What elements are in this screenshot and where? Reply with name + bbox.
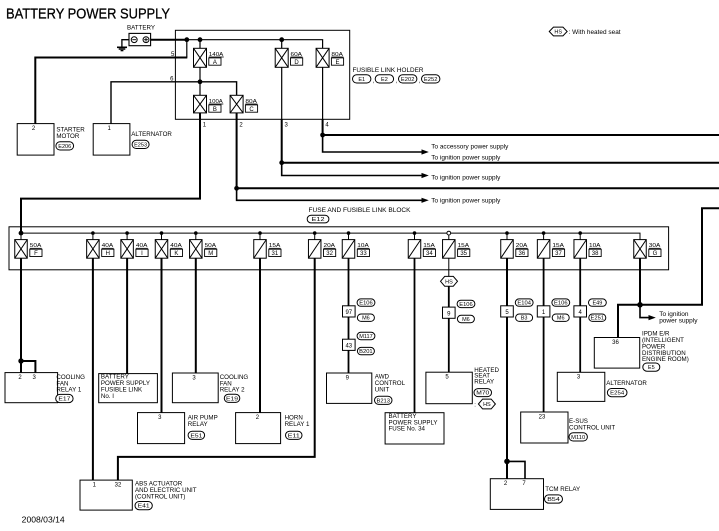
holder top bus bbox=[187, 40, 323, 49]
wire pin4 bbox=[322, 119, 324, 135]
E-SUS control unit M110 bbox=[521, 412, 616, 443]
connector E202 bbox=[399, 75, 417, 83]
svg-text:UNIT: UNIT bbox=[375, 386, 390, 393]
svg-text:E41: E41 bbox=[138, 504, 150, 510]
svg-text:B213: B213 bbox=[377, 398, 391, 404]
node fuse F feed bbox=[19, 231, 24, 236]
fusible link A bbox=[194, 48, 224, 67]
node wire6-AB bbox=[198, 79, 203, 84]
stub bus to link D bbox=[281, 40, 283, 49]
wire to IPDM pin 36 bbox=[618, 305, 640, 338]
wire fuse 33 to AWD unit bbox=[348, 258, 350, 373]
svg-text:E2: E2 bbox=[381, 77, 388, 83]
wire pin2 arrow stub bbox=[237, 188, 422, 200]
svg-text:FUSIBLE LINK HOLDER: FUSIBLE LINK HOLDER bbox=[353, 67, 424, 74]
HS legend text bbox=[569, 29, 621, 36]
svg-text:M6: M6 bbox=[362, 316, 370, 322]
svg-text:E1: E1 bbox=[358, 77, 365, 83]
node bus-A bbox=[198, 37, 203, 42]
label to ignition 2 bbox=[431, 175, 501, 182]
svg-text:32: 32 bbox=[115, 482, 122, 488]
connector 5 E104/B3 bbox=[501, 299, 533, 322]
svg-text:RELAY: RELAY bbox=[474, 378, 494, 385]
svg-text:23: 23 bbox=[539, 414, 546, 420]
svg-text:97: 97 bbox=[345, 310, 352, 316]
connector E1 bbox=[353, 75, 371, 83]
wire battery positive to holder bus bbox=[151, 39, 187, 41]
svg-text:E251: E251 bbox=[591, 316, 605, 322]
wire ignition arrow stub bbox=[640, 305, 649, 318]
svg-text:E106: E106 bbox=[359, 301, 373, 307]
AWD control unit B213 bbox=[327, 373, 406, 404]
svg-text:E106: E106 bbox=[554, 301, 568, 307]
horn relay 1 E11 bbox=[236, 413, 310, 444]
wire fuse F to cooling fan relay 1 bbox=[20, 258, 22, 372]
HS legend symbol bbox=[549, 27, 567, 36]
svg-text:D: D bbox=[294, 60, 299, 66]
wire fuse 38 to alternator bbox=[579, 258, 581, 372]
alternator E253 bbox=[93, 124, 172, 156]
wire battery negative to ground bbox=[122, 40, 129, 47]
wire fuse 36 to TCM relay bbox=[506, 258, 508, 479]
node TCM split bbox=[504, 459, 510, 465]
connector 9 E106/M6 bbox=[443, 300, 475, 323]
fusible link C bbox=[230, 95, 258, 113]
wire pin3 bbox=[281, 119, 283, 162]
svg-text:E12: E12 bbox=[312, 217, 325, 223]
svg-text:M: M bbox=[208, 251, 213, 257]
svg-text:To accessory power supply: To accessory power supply bbox=[431, 143, 509, 150]
node fuse 37 tap bbox=[542, 231, 546, 235]
svg-text:RELAY: RELAY bbox=[188, 421, 208, 428]
wire 5 label bbox=[171, 52, 175, 58]
fuse 37 bbox=[537, 233, 564, 258]
ground bbox=[117, 47, 127, 50]
svg-text:ENGINE ROOM): ENGINE ROOM) bbox=[642, 356, 689, 363]
svg-text:B54: B54 bbox=[547, 497, 560, 503]
svg-text:E253: E253 bbox=[134, 142, 147, 148]
svg-text:A: A bbox=[213, 60, 217, 66]
svg-text:E252: E252 bbox=[424, 77, 438, 83]
node fuse 35 tap (open) bbox=[447, 231, 451, 235]
svg-text:FUSE AND FUSIBLE LINK BLOCK: FUSE AND FUSIBLE LINK BLOCK bbox=[309, 207, 412, 214]
svg-text:To ignition power supply: To ignition power supply bbox=[431, 154, 501, 161]
wire pin2 bbox=[236, 113, 238, 188]
svg-text:(CONTROL UNIT): (CONTROL UNIT) bbox=[135, 493, 185, 500]
node fuse F tap bbox=[19, 231, 23, 235]
wire fuse 37 to E-SUS bbox=[543, 258, 545, 412]
wire feed from right edge bbox=[640, 208, 719, 305]
fuse block box bbox=[9, 227, 669, 270]
svg-text:B: B bbox=[213, 107, 217, 113]
svg-text:38: 38 bbox=[592, 251, 599, 257]
wire 5 starter to bus bbox=[35, 40, 187, 124]
battery label bbox=[127, 25, 156, 32]
fuse 35 bbox=[443, 233, 470, 258]
wire fuse 31 to horn relay 1 bbox=[259, 258, 261, 412]
svg-text:BATTERY: BATTERY bbox=[127, 25, 156, 32]
connector E2 bbox=[375, 75, 393, 83]
svg-text:36: 36 bbox=[519, 251, 526, 257]
pin 2 label bbox=[239, 123, 243, 129]
svg-text:E5: E5 bbox=[648, 365, 655, 371]
label to accessory bbox=[431, 143, 509, 150]
comma bbox=[373, 79, 375, 85]
svg-text:TCM RELAY: TCM RELAY bbox=[545, 486, 580, 493]
svg-text:E11: E11 bbox=[288, 433, 300, 439]
HS option symbol bbox=[441, 276, 458, 286]
svg-text:34: 34 bbox=[426, 251, 433, 257]
svg-text:No. I: No. I bbox=[101, 393, 114, 400]
fusible link H bbox=[87, 233, 114, 258]
bus pin4 right bbox=[323, 134, 719, 136]
label to ignition 1 bbox=[431, 154, 501, 161]
svg-text:M6: M6 bbox=[462, 317, 470, 323]
svg-text:E19: E19 bbox=[226, 396, 238, 402]
svg-text:HS: HS bbox=[554, 30, 562, 36]
node fuse K tap bbox=[160, 231, 164, 235]
IPDM E/R E5 bbox=[594, 330, 688, 371]
wire pin4 arrow stub bbox=[323, 135, 422, 152]
svg-text:E202: E202 bbox=[401, 77, 415, 83]
svg-text:F: F bbox=[34, 251, 38, 257]
fusible link D bbox=[275, 48, 303, 67]
svg-text:M70: M70 bbox=[476, 391, 489, 397]
wire fuse 34 to fuse box 34 bbox=[414, 258, 416, 413]
label to ignition 3 bbox=[431, 197, 501, 204]
arrow to ignition 4 bbox=[649, 315, 656, 320]
connector E12 bbox=[307, 215, 329, 223]
svg-text:M6: M6 bbox=[557, 316, 565, 322]
wire pin1 feed to fuse block bbox=[21, 113, 200, 233]
stub bus to link A bbox=[199, 40, 201, 49]
svg-text:H: H bbox=[106, 251, 110, 257]
wire fuse K to air pump relay bbox=[161, 258, 163, 412]
wire HS to heated seat relay bbox=[448, 286, 450, 372]
svg-text:G: G bbox=[653, 251, 658, 257]
node fuse M tap bbox=[194, 231, 198, 235]
svg-text:E254: E254 bbox=[610, 391, 624, 397]
ABS actuator E41 bbox=[80, 480, 197, 510]
fusible link B bbox=[194, 95, 224, 113]
wire link D to node3 bbox=[281, 67, 283, 119]
svg-text:E51: E51 bbox=[190, 433, 202, 439]
air pump relay E51 bbox=[138, 413, 218, 444]
heated seat relay M70 bbox=[426, 367, 500, 409]
svg-text:FUSE No. 34: FUSE No. 34 bbox=[389, 426, 426, 433]
node bus-5 bbox=[184, 37, 189, 42]
fusible link K bbox=[155, 233, 182, 258]
fusible link E bbox=[316, 48, 344, 67]
svg-text:2008/03/14: 2008/03/14 bbox=[22, 516, 66, 525]
cooling fan relay 2 E19 bbox=[172, 373, 248, 403]
fuse 34 bbox=[408, 233, 435, 258]
svg-text:E104: E104 bbox=[517, 301, 531, 307]
node bus-D bbox=[279, 37, 284, 42]
svg-text:RELAY 1: RELAY 1 bbox=[285, 421, 310, 428]
battery power supply fuse 34 box bbox=[385, 413, 444, 444]
node pin3 bus bbox=[279, 160, 284, 165]
connector 43 M117/B201 bbox=[343, 332, 375, 355]
wire fuse 32 to ABS pin 32 bbox=[118, 258, 315, 480]
svg-text:E206: E206 bbox=[58, 144, 71, 150]
node IPDM junction bbox=[637, 302, 643, 308]
bus pin3 right bbox=[282, 162, 719, 164]
svg-text:31: 31 bbox=[272, 251, 279, 257]
svg-text:32: 32 bbox=[326, 251, 333, 257]
wire fuse H to ABS pin 1 bbox=[92, 258, 94, 480]
svg-text:HS: HS bbox=[483, 402, 491, 408]
svg-text:To ignition power supply: To ignition power supply bbox=[431, 197, 501, 204]
arrow to ignition 2 bbox=[422, 173, 429, 178]
fusible link G bbox=[634, 240, 661, 259]
holder label FUSIBLE LINK HOLDER bbox=[353, 67, 424, 74]
svg-text:B201: B201 bbox=[359, 349, 373, 355]
pin 4 label bbox=[325, 123, 329, 129]
title bbox=[6, 6, 170, 23]
wire fuse M to cooling fan relay 2 bbox=[195, 258, 197, 373]
label to ignition 4 bbox=[659, 311, 698, 325]
arrow to ignition 3 bbox=[422, 198, 429, 203]
svg-text:K: K bbox=[174, 251, 178, 257]
wire fuse 35 to HS bbox=[448, 258, 450, 276]
battery B1 bbox=[129, 33, 151, 45]
node fuse 33 tap bbox=[347, 231, 351, 235]
wire 6 label bbox=[170, 76, 174, 82]
svg-text:To ignition power supply: To ignition power supply bbox=[431, 175, 501, 182]
node fuse H tap bbox=[91, 231, 95, 235]
svg-text:CONTROL UNIT: CONTROL UNIT bbox=[569, 424, 615, 431]
fuse 36 bbox=[501, 233, 528, 258]
node fuse 32 tap bbox=[313, 231, 317, 235]
svg-text:E106: E106 bbox=[459, 302, 473, 308]
date bbox=[22, 516, 66, 525]
svg-text:BATTERY POWER SUPPLY: BATTERY POWER SUPPLY bbox=[6, 6, 170, 23]
wire link E to node4 bbox=[322, 67, 324, 119]
connector E252 bbox=[422, 75, 440, 83]
svg-text:35: 35 bbox=[460, 251, 467, 257]
fusible link holder box bbox=[175, 30, 349, 119]
fusible link M bbox=[190, 233, 217, 258]
node fuse I tap bbox=[125, 231, 129, 235]
arrow to accessory bbox=[422, 149, 429, 154]
node pin4 bus bbox=[320, 133, 325, 138]
pin 3 label bbox=[285, 123, 289, 129]
svg-text:ALTERNATOR: ALTERNATOR bbox=[606, 380, 647, 387]
node fuse 38 tap bbox=[578, 231, 582, 235]
svg-text:B3: B3 bbox=[521, 316, 528, 322]
pin 1 label bbox=[203, 123, 207, 129]
fuse 33 bbox=[342, 233, 369, 258]
svg-text:HS: HS bbox=[445, 279, 453, 285]
svg-text:ALTERNATOR: ALTERNATOR bbox=[131, 131, 172, 138]
fusible link F bbox=[15, 233, 42, 258]
fuse block label bbox=[309, 207, 412, 214]
TCM relay B54 bbox=[490, 479, 580, 510]
fusible link I bbox=[121, 233, 148, 258]
svg-text:M110: M110 bbox=[571, 435, 585, 441]
svg-text:MOTOR: MOTOR bbox=[56, 133, 79, 140]
connector 4 E49/E251 bbox=[574, 299, 606, 322]
battery power supply fusible link box bbox=[99, 374, 158, 403]
fuse 32 bbox=[308, 233, 335, 258]
wire link A to link B bbox=[199, 67, 201, 95]
svg-text:37: 37 bbox=[555, 251, 562, 257]
alternator E254 bbox=[557, 372, 647, 401]
fuse 38 bbox=[574, 233, 601, 258]
wire branch to pin 3 bbox=[21, 361, 35, 373]
svg-text:C: C bbox=[249, 107, 254, 113]
comma bbox=[419, 79, 421, 85]
fuse block bus bbox=[21, 233, 640, 240]
connector 1 E106/M6 bbox=[537, 299, 569, 322]
wire fuse G down bbox=[639, 258, 641, 305]
wire 6 alternator to links bbox=[111, 82, 237, 124]
svg-text:E17: E17 bbox=[58, 397, 70, 403]
svg-text:36: 36 bbox=[612, 340, 619, 346]
comma bbox=[396, 79, 398, 85]
svg-text:power supply: power supply bbox=[659, 318, 698, 325]
node fuse 31 tap bbox=[258, 231, 262, 235]
svg-text:RELAY 2: RELAY 2 bbox=[220, 387, 245, 394]
node fuse 36 tap bbox=[505, 231, 509, 235]
bus pin2 right bbox=[237, 187, 719, 189]
node pin2 bus bbox=[234, 186, 239, 191]
svg-text:E: E bbox=[335, 60, 339, 66]
cooling fan relay 1 E17 bbox=[5, 373, 85, 403]
wire TCM branch pin 7 bbox=[507, 461, 525, 478]
wire fuse I to fusible link box bbox=[126, 258, 128, 373]
svg-text:E49: E49 bbox=[593, 301, 603, 307]
wire pin3 arrow stub bbox=[282, 163, 422, 176]
svg-text:43: 43 bbox=[345, 343, 352, 349]
svg-text:RELAY 1: RELAY 1 bbox=[56, 387, 81, 394]
svg-text:: With heated seat: : With heated seat bbox=[569, 29, 621, 36]
node cooling fan split bbox=[18, 358, 23, 363]
node fuse 34 tap bbox=[413, 231, 417, 235]
svg-text:33: 33 bbox=[360, 251, 367, 257]
fuse 31 bbox=[254, 233, 281, 258]
starter motor E206 bbox=[17, 124, 85, 156]
connector 97 E106/M6 bbox=[343, 299, 375, 322]
svg-text:M117: M117 bbox=[359, 334, 373, 340]
